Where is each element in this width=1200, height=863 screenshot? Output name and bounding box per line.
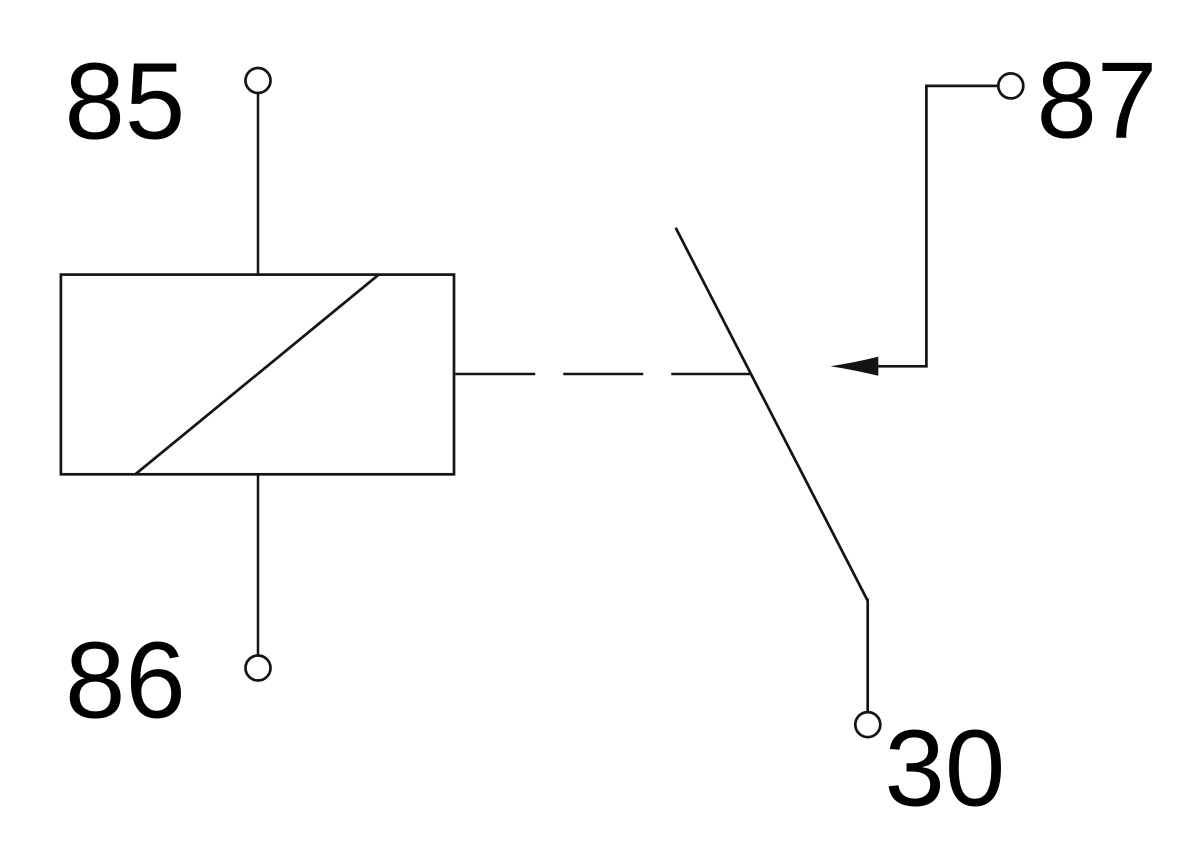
svg-text:85: 85 bbox=[65, 41, 186, 162]
svg-text:87: 87 bbox=[1037, 40, 1158, 161]
svg-text:30: 30 bbox=[885, 707, 1006, 828]
svg-text:86: 86 bbox=[65, 619, 186, 740]
